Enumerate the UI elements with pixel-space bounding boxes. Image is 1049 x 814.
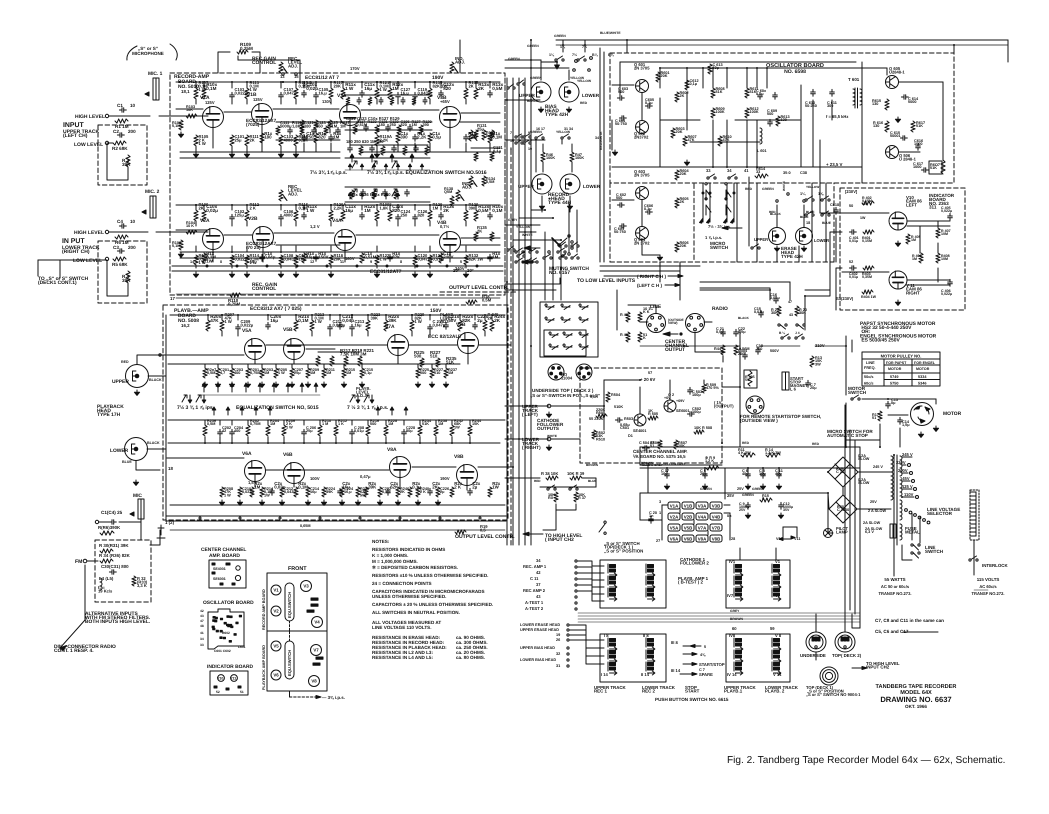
svg-text:33: 33 (706, 168, 711, 173)
wire stub (231, 246, 233, 252)
wire stub eqp (303, 437, 305, 443)
wire bridge2 out (857, 508, 891, 510)
ground (273, 382, 278, 387)
connection point pb (359, 517, 361, 519)
resistor R227c (436, 358, 440, 367)
svg-text:AC 60c/s: AC 60c/s (979, 584, 997, 589)
svg-text:7 ½ 3 ¾ 1 ⅞ i.p.s.: 7 ½ 3 ¾ 1 ⅞ i.p.s. (347, 405, 389, 411)
wire stub f (361, 82, 363, 88)
svg-text:43: 43 (536, 594, 541, 599)
wire stub eqp top (247, 420, 249, 425)
svg-text:RADIO: RADIO (712, 306, 728, 312)
resistor R111 (245, 135, 249, 146)
wire low level left (700, 287, 770, 289)
resistor C210 (238, 487, 242, 497)
svg-text:1⅞: 1⅞ (818, 192, 824, 196)
junction (237, 314, 239, 316)
wire interboard run (176, 297, 500, 299)
junction bus (512, 139, 514, 141)
capacitor C2 (117, 133, 124, 138)
svg-text:EQU.SWITCH: EQU.SWITCH (287, 650, 292, 676)
svg-text:V7: V7 (313, 648, 319, 653)
resistor R305 boxed (744, 370, 757, 388)
junction (702, 67, 704, 69)
wire v10v11 stub2 (796, 527, 798, 537)
svg-text:V1A: V1A (670, 503, 679, 508)
svg-text:R609100K: R609100K (716, 107, 725, 114)
junction (756, 166, 758, 168)
wire tap 110V (902, 496, 914, 498)
svg-text:V6A: V6A (242, 451, 252, 457)
wire indicator left (805, 232, 842, 296)
wire rail s8 (180, 257, 500, 259)
svg-text:YELLOW GREY: YELLOW GREY (663, 462, 687, 466)
junction bus (524, 231, 526, 233)
wire heater feed (640, 519, 662, 521)
capacitor C606 (645, 210, 652, 215)
junction (893, 454, 895, 456)
front panel marker (311, 604, 318, 606)
switch osc lower (805, 211, 814, 216)
svg-text:UPPER: UPPER (518, 184, 535, 189)
svg-text:R10x0,1M: R10x0,1M (206, 82, 217, 91)
ground bias (538, 107, 543, 112)
junction (330, 204, 332, 206)
wire osc rail a (660, 119, 700, 121)
wire (505, 278, 560, 284)
capacitor C202 (218, 429, 223, 436)
wire bias feed2 (505, 67, 569, 69)
junction (778, 467, 780, 469)
resistor fill right (474, 152, 478, 161)
front tube V4 (312, 617, 323, 628)
svg-text:C1x0,5μ: C1x0,5μ (432, 131, 441, 140)
resistor R617 (911, 121, 915, 132)
wire playback bottom rail (170, 504, 505, 506)
svg-text:V3: V3 (303, 584, 309, 589)
ground (321, 382, 326, 387)
wire stub (311, 331, 313, 336)
resistor eq2 (372, 190, 376, 199)
svg-text:R10x0,1M: R10x0,1M (492, 204, 503, 213)
bridge rectifier B250 (828, 457, 858, 487)
front panel marker (316, 657, 323, 659)
resistor R34 (100, 559, 113, 563)
wire stub eqp (204, 437, 206, 443)
resistor R128 (428, 210, 432, 221)
wire stub f (303, 82, 305, 88)
svg-text:C10x0,02μ: C10x0,02μ (306, 82, 318, 91)
resistor R211 (322, 368, 326, 378)
svg-text:MIC. 2: MIC. 2 (145, 189, 160, 195)
wire stub f2 (429, 143, 431, 152)
wire stub f3 (342, 205, 344, 210)
switch b14 (781, 334, 790, 339)
wire drop 563 (562, 45, 564, 52)
front tube V1 (271, 585, 281, 595)
junction (475, 81, 477, 83)
resistor R611 (745, 88, 749, 98)
svg-text:31: 31 (556, 664, 560, 668)
junction (280, 204, 282, 206)
transformer T601 (855, 88, 858, 108)
junction (562, 44, 564, 46)
wire vertical bus 2 (512, 78, 514, 545)
wire stub bot (280, 99, 282, 104)
switch arrow v5 row (244, 383, 248, 392)
wire heater rail playback (166, 520, 506, 522)
wire stub pb (445, 315, 447, 320)
resistor C 613 (708, 64, 712, 74)
wire (571, 144, 573, 152)
svg-text:220V: 220V (896, 460, 906, 465)
capacitor C124 (396, 214, 401, 221)
resistor fill pb low (408, 487, 412, 497)
microphone jack MIC.1 (145, 78, 159, 100)
wire stub (361, 364, 363, 368)
coil T601 primary (853, 89, 855, 105)
svg-text:10K R 508: 10K R 508 (694, 426, 712, 430)
switch contact osc 1 (705, 183, 711, 200)
wire q603-q604 (641, 200, 643, 226)
svg-text:18: 18 (806, 221, 810, 225)
wire top bus (556, 39, 1008, 41)
wire (107, 142, 113, 144)
front panel center dashed (289, 621, 291, 641)
svg-text:R504: R504 (611, 393, 621, 397)
svg-text:V3B: V3B (712, 503, 721, 508)
svg-text:WHITE: WHITE (522, 233, 533, 237)
junction (445, 314, 447, 316)
capacitor fill ch2 low (488, 254, 493, 261)
switch arrow v5 row (272, 383, 276, 392)
arrow spare (680, 673, 697, 676)
resistor fill ch2 low (360, 253, 364, 263)
svg-text:REC. AMP 1: REC. AMP 1 (523, 564, 547, 569)
junction (747, 467, 749, 469)
svg-text:BLUE: BLUE (822, 221, 832, 225)
ground playback col (321, 500, 326, 505)
equ switch capsule 2 (285, 641, 294, 679)
capacitor osc fill2 (773, 92, 778, 99)
svg-text:RECORD AMP BOARD: RECORD AMP BOARD (262, 589, 266, 630)
wire record top rail (176, 81, 500, 83)
wire tie bias (531, 59, 541, 61)
junction (303, 442, 305, 444)
svg-text:NO. 6598: NO. 6598 (784, 69, 806, 75)
wire riser 855 (854, 440, 856, 614)
junction bus (506, 281, 508, 283)
resistor R117 (329, 88, 333, 99)
resistor R45 (734, 345, 738, 355)
wire osc tie (746, 68, 748, 88)
resistor fill ch2 low (302, 253, 306, 263)
capacitor fill ch2 (439, 212, 444, 219)
arrow drop (731, 218, 735, 223)
resistor eq2 (394, 190, 398, 199)
wire (776, 205, 778, 227)
wire (619, 62, 621, 98)
junction tie (530, 139, 532, 141)
svg-text:34: 34 (536, 558, 541, 563)
wire V6B cath (293, 484, 295, 487)
svg-text:7½ 3 ¾ 1 ⅞ ips.: 7½ 3 ¾ 1 ⅞ ips. (177, 405, 215, 411)
long dashed mid (510, 150, 512, 545)
svg-text:ALL SWITCHES IN NEUTRAL PO: ALL SWITCHES IN NEUTRAL POSITION. (372, 610, 460, 615)
ground V11 (895, 300, 900, 305)
capacitor C 603 (617, 96, 624, 101)
svg-text:PLAYBACK AMP BOARD: PLAYBACK AMP BOARD (262, 645, 266, 690)
wire V2A-V2B (224, 234, 252, 236)
capacitor C102 (230, 214, 235, 221)
wire playb out2 (505, 438, 549, 440)
svg-text:+ 23,5 V: + 23,5 V (826, 162, 843, 167)
capacitor fill ch2 (360, 212, 365, 219)
svg-text:190V: 190V (440, 476, 450, 481)
svg-text:V6B: V6B (283, 452, 293, 458)
resistor R613 (776, 116, 780, 126)
wire osc ext right (811, 196, 813, 262)
svg-text:R13x0,5M: R13x0,5M (492, 82, 503, 91)
resistor R619 (941, 160, 945, 174)
ground col (374, 152, 379, 157)
resistor R407 (936, 228, 940, 238)
switch arrow v5 row (216, 383, 220, 392)
terminal left2 (567, 653, 569, 655)
wire run 276 (604, 275, 660, 277)
svg-text:YELLOW: YELLOW (570, 76, 585, 80)
svg-text:V2B: V2B (684, 514, 693, 519)
capacitor fill ch1 (488, 90, 493, 97)
head record lower (560, 174, 580, 194)
wire line feed (628, 305, 656, 313)
svg-text:L601: L601 (238, 645, 246, 649)
resistor R234 (418, 425, 422, 436)
potentiometer ind adj1 (450, 62, 454, 73)
rotary switch muting (548, 235, 573, 257)
terminal high ch2 (105, 230, 108, 233)
resistor R204 (266, 425, 270, 436)
svg-text:R2x0,1μ: R2x0,1μ (412, 481, 421, 490)
coil L601 (760, 128, 762, 144)
svg-text:I 14: I 14 (601, 672, 609, 677)
svg-text:200: 200 (128, 245, 136, 250)
wire riser b (852, 614, 860, 628)
wire record rail ch2 low (180, 251, 500, 253)
resistor fill ch1 low (428, 133, 432, 143)
wire rail (168, 442, 500, 444)
relay box outline 2 (544, 330, 586, 356)
switch line a (911, 544, 920, 550)
capacitor fill ch1 low (302, 134, 307, 141)
svg-text:R2n70,5M: R2n70,5M (207, 368, 216, 375)
wire V4A-V4B (356, 234, 439, 236)
resistor eq row0 (368, 97, 372, 105)
wire r407-r408 (937, 243, 939, 253)
wire stub eqp top (403, 420, 405, 425)
svg-text:A-TEST 2: A-TEST 2 (525, 606, 544, 611)
record board right dashed (504, 78, 506, 282)
capacitor C30 (109, 570, 116, 575)
wire stub eqp top (219, 420, 221, 425)
wire stub ch2b (195, 221, 197, 226)
wire top bus 2 (556, 44, 1008, 46)
wire out ch2 (478, 466, 505, 468)
switch rec1 (535, 134, 544, 139)
junction (267, 442, 269, 444)
svg-text:GREY: GREY (508, 218, 518, 222)
wire bus drop (530, 40, 532, 78)
svg-text:V 14: V 14 (773, 672, 782, 677)
wire (562, 40, 564, 48)
potentiometer R109 (237, 50, 248, 54)
resistor R507 (674, 440, 678, 449)
svg-text:BLACK: BLACK (527, 99, 539, 103)
capacitor C11 (777, 471, 782, 478)
ground playback col (395, 500, 400, 505)
junction (319, 442, 321, 444)
bank outline rec (600, 560, 666, 608)
potentiometer ind adj 2 (469, 176, 473, 187)
wire (459, 40, 461, 73)
wire heater in (662, 504, 668, 506)
resistor R44 (721, 345, 725, 355)
wire stub (330, 246, 332, 252)
wire q604 down (642, 240, 660, 255)
svg-text:GREEN: GREEN (762, 187, 774, 191)
capacitor C12 (779, 502, 784, 509)
wire stub (376, 265, 378, 268)
switch muting 4 (529, 258, 538, 263)
junction bus (530, 345, 532, 347)
svg-text:1 (2): 1 (2) (165, 520, 175, 525)
resistor eq row2 (425, 146, 429, 155)
arrow to high level (523, 532, 543, 536)
arrow left 7.5-3.75 (722, 226, 742, 229)
heater row 4 (668, 535, 722, 542)
wire playback low rail2 (170, 529, 505, 531)
svg-text:170V: 170V (350, 66, 360, 71)
resistor R609 (711, 108, 715, 118)
wire matrix left 3 (578, 573, 604, 580)
capacitor C501 (615, 418, 622, 423)
wire riser 545 (544, 232, 546, 300)
ground head1 (134, 390, 139, 395)
wire stub pb (207, 315, 209, 320)
terminal B14 (573, 69, 576, 72)
switch arrow eq (370, 154, 374, 162)
wire stub top (330, 82, 332, 88)
ground cap (745, 484, 750, 489)
svg-text:51: 51 (240, 690, 244, 694)
ground playback col (415, 500, 420, 505)
svg-text:RED: RED (121, 360, 129, 364)
svg-text:RED: RED (812, 442, 820, 446)
wire low level drop (789, 282, 791, 300)
resistor C110 (294, 255, 298, 265)
junction (329, 314, 331, 316)
resistor fill pb (294, 320, 298, 331)
junction (231, 81, 233, 83)
connector line (647, 314, 666, 333)
svg-text:III 14: III 14 (671, 668, 681, 673)
resistor R402 (862, 201, 874, 205)
junction (295, 204, 297, 206)
line c5c6c17 (903, 631, 938, 633)
switch osc lower (821, 211, 830, 216)
junction (762, 467, 764, 469)
record amp board outline (170, 73, 505, 295)
tube V8A (390, 457, 411, 478)
svg-text:V4: V4 (314, 620, 320, 625)
wire (556, 504, 576, 510)
wire head2 to board (136, 461, 160, 470)
resistor fill ch2 (388, 210, 392, 221)
head erase upper (769, 228, 786, 245)
wire matrix bus 4 (578, 621, 860, 623)
junction bus (506, 477, 508, 479)
resistor R119A (375, 135, 379, 146)
svg-text:R44: R44 (714, 347, 722, 351)
svg-text:115 VOLTS: 115 VOLTS (977, 577, 1000, 582)
svg-text:V5B: V5B (283, 327, 293, 333)
wire cap stub (704, 468, 706, 474)
wire stub (311, 315, 313, 320)
ground playback col (305, 500, 310, 505)
wire cap stub (762, 468, 764, 474)
wire stub eqp top (335, 420, 337, 425)
resistor R106 (194, 210, 198, 221)
fuse symbol (890, 524, 896, 538)
wire stub bot (295, 99, 297, 104)
junction (303, 81, 305, 83)
wire (584, 40, 586, 48)
wire rail s3 (176, 229, 208, 231)
wire stub (217, 364, 219, 368)
ground col ch2 (278, 272, 283, 277)
switch contact eq playback (196, 395, 201, 402)
wire stub eqp (219, 437, 221, 443)
arrow eq dense (396, 164, 399, 170)
arrows III (683, 645, 701, 648)
wire deck switch drop (37, 260, 39, 276)
wire heater rail (172, 270, 503, 272)
wire drop 627 (626, 40, 628, 53)
wire stub top (246, 82, 248, 88)
svg-text:43: 43 (789, 313, 793, 317)
wire stub eqp (435, 437, 437, 443)
capacitor C502 (687, 412, 694, 417)
junction (584, 44, 586, 46)
svg-text:C10x0,02μ: C10x0,02μ (206, 204, 218, 213)
transistor Q601 (636, 80, 649, 93)
capacitor C504 (642, 446, 649, 451)
resistor eq row2 (381, 146, 385, 155)
capacitor C15 (759, 310, 764, 317)
resistor R101 (179, 120, 183, 130)
wire rec gain run (238, 59, 300, 61)
ground (202, 382, 207, 387)
svg-text:9: 9 (528, 131, 530, 135)
terminal left2 (567, 639, 569, 641)
junction (282, 81, 284, 83)
svg-text:V5A: V5A (242, 328, 252, 334)
svg-text:C 61550001: C 61550001 (890, 131, 901, 138)
svg-text:34: 34 (727, 168, 732, 173)
switch contact eq (392, 161, 397, 168)
wire (842, 271, 889, 273)
svg-text:M = 1,000,000 OHMS.: M = 1,000,000 OHMS. (372, 559, 418, 564)
